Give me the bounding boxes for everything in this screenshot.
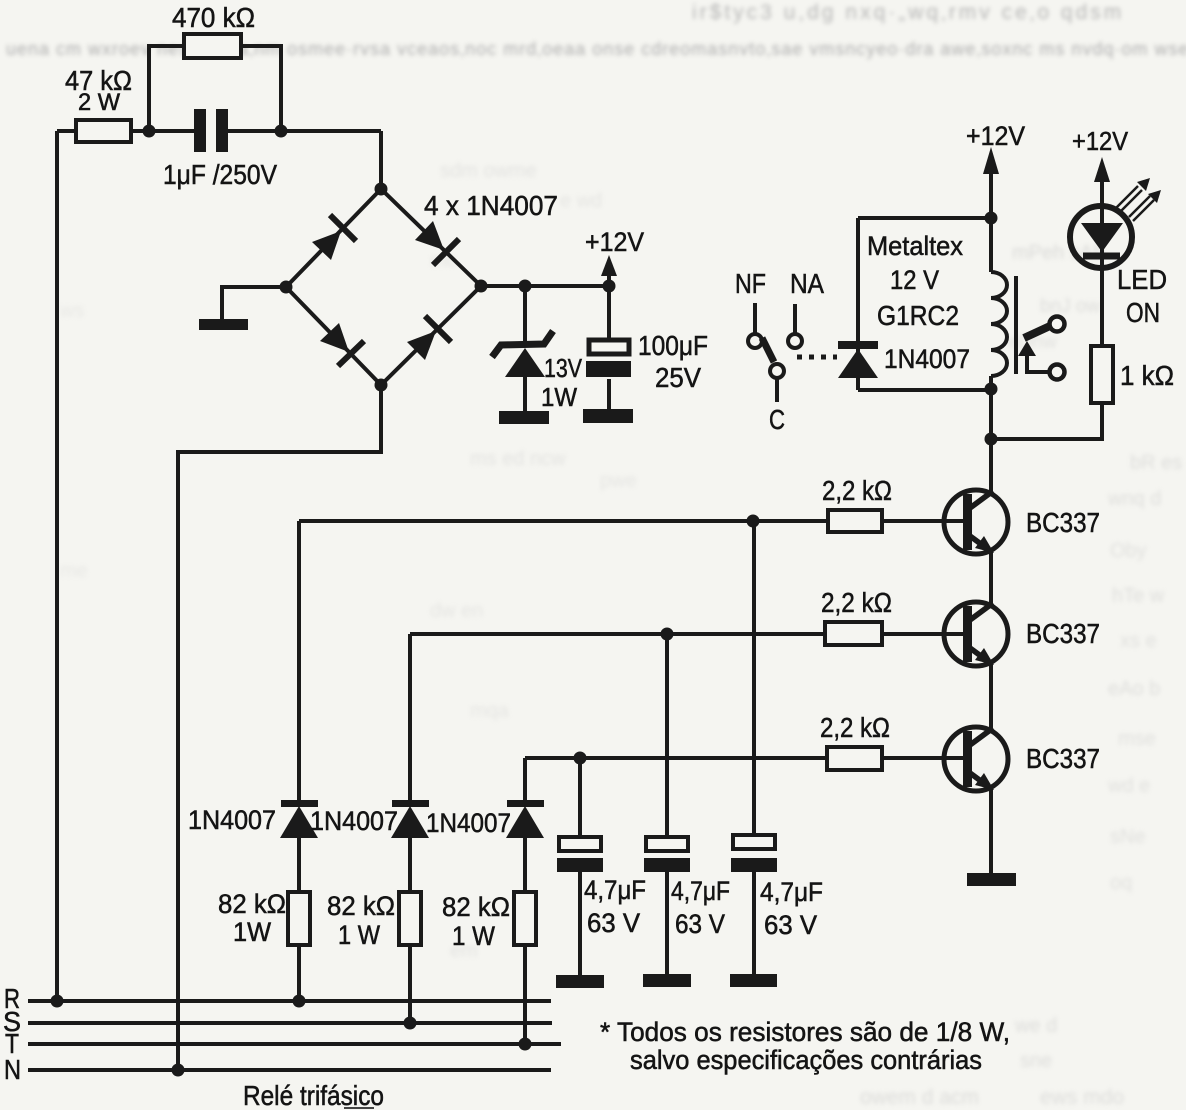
svg-text:NF: NF [735, 268, 766, 299]
svg-text:BC337: BC337 [1026, 743, 1100, 774]
svg-text:4,7μF: 4,7μF [760, 877, 823, 907]
svg-text:salvo especificações contrária: salvo especificações contrárias [630, 1045, 982, 1075]
svg-text:4,7μF: 4,7μF [584, 875, 646, 905]
svg-text:1N4007: 1N4007 [310, 806, 398, 836]
svg-text:25V: 25V [655, 362, 701, 393]
svg-text:470 kΩ: 470 kΩ [172, 2, 255, 33]
svg-text:ON: ON [1126, 297, 1160, 328]
svg-text:1μF /250V: 1μF /250V [163, 159, 277, 190]
svg-text:2,2 kΩ: 2,2 kΩ [820, 712, 890, 743]
svg-text:1N4007: 1N4007 [426, 808, 511, 838]
svg-text:Metaltex: Metaltex [867, 231, 963, 261]
svg-text:* Todos os resistores são de 1: * Todos os resistores são de 1/8 W, [600, 1017, 1010, 1047]
svg-text:82 kΩ: 82 kΩ [327, 891, 395, 921]
svg-text:C: C [769, 404, 785, 435]
svg-text:Relé trifásico: Relé trifásico [243, 1080, 384, 1110]
svg-text:1N4007: 1N4007 [884, 344, 970, 374]
svg-text:13V: 13V [544, 353, 583, 383]
svg-text:100μF: 100μF [638, 330, 708, 361]
svg-text:BC337: BC337 [1026, 507, 1100, 538]
svg-text:LED: LED [1117, 264, 1167, 295]
svg-text:N: N [4, 1054, 21, 1085]
svg-text:G1RC2: G1RC2 [877, 300, 959, 331]
svg-text:+12V: +12V [1072, 126, 1129, 156]
svg-text:4,7μF: 4,7μF [671, 876, 730, 906]
svg-text:12 V: 12 V [890, 265, 939, 295]
svg-text:63 V: 63 V [587, 908, 640, 938]
svg-text:1N4007: 1N4007 [188, 805, 276, 835]
svg-text:63 V: 63 V [675, 909, 725, 939]
svg-text:BC337: BC337 [1026, 618, 1100, 649]
svg-text:1W: 1W [541, 382, 577, 412]
svg-text:82 kΩ: 82 kΩ [442, 892, 510, 922]
svg-text:2,2 kΩ: 2,2 kΩ [822, 475, 892, 506]
svg-text:1 W: 1 W [338, 920, 380, 950]
svg-text:82 kΩ: 82 kΩ [218, 889, 286, 919]
svg-text:NA: NA [790, 268, 824, 299]
svg-text:4 x 1N4007: 4 x 1N4007 [424, 190, 558, 221]
svg-text:2 W: 2 W [78, 89, 120, 116]
svg-text:2,2 kΩ: 2,2 kΩ [821, 587, 892, 618]
svg-text:+12V: +12V [966, 121, 1025, 151]
svg-text:1 W: 1 W [452, 921, 495, 951]
svg-text:1 kΩ: 1 kΩ [1120, 360, 1174, 391]
svg-text:+12V: +12V [585, 227, 644, 257]
svg-text:1W: 1W [233, 917, 271, 947]
svg-text:63 V: 63 V [764, 910, 817, 940]
